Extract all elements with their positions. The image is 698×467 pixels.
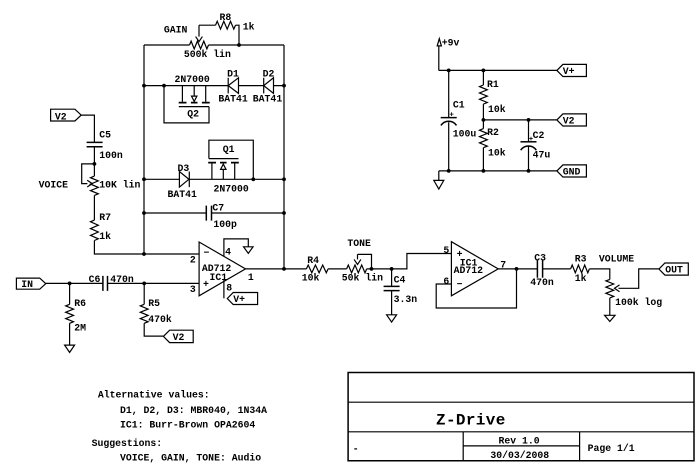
svg-text:R1: R1 — [487, 79, 499, 90]
node left rail / pin2 wire — [142, 252, 146, 256]
wire VOICE pot to R7 — [93, 195, 95, 220]
power tag V+ at pin 8 — [227, 293, 257, 305]
op-amp U1b IC1 AD712 stage 2 — [451, 242, 498, 296]
resistor R1 10k — [482, 70, 484, 85]
+9v supply arrow — [437, 39, 441, 46]
svg-text:BAT41: BAT41 — [253, 93, 283, 104]
diode D2 BAT41 — [263, 78, 265, 94]
svg-text:D1: D1 — [227, 69, 239, 80]
node R1 top — [482, 69, 486, 73]
power tag GND — [557, 165, 587, 177]
resistor R7 1k — [91, 220, 99, 240]
svg-text:−: − — [457, 279, 463, 290]
wire R7 to op-amp pin 2 — [94, 241, 199, 255]
svg-text:R5: R5 — [148, 298, 160, 309]
node R2 bottom — [482, 169, 486, 173]
svg-text:2: 2 — [190, 254, 196, 265]
svg-text:−: − — [204, 247, 210, 258]
node output/right rail — [282, 267, 286, 271]
svg-text:R4: R4 — [307, 255, 319, 266]
svg-text:C5: C5 — [99, 130, 111, 141]
svg-text:Q1: Q1 — [223, 144, 235, 155]
svg-text:D2: D2 — [263, 69, 275, 80]
svg-text:1k: 1k — [575, 273, 587, 284]
node C1 top — [447, 69, 451, 73]
svg-text:6: 6 — [443, 276, 449, 287]
ground of supply — [434, 180, 444, 189]
node C1 bottom — [447, 169, 451, 173]
port tag IN — [16, 278, 45, 289]
svg-text:100n: 100n — [99, 150, 123, 161]
ground under C4 — [387, 315, 397, 322]
svg-text:GAIN: GAIN — [164, 24, 188, 35]
svg-text:C3: C3 — [534, 253, 546, 264]
svg-text:R2: R2 — [487, 127, 499, 138]
svg-text:R7: R7 — [99, 212, 111, 223]
node R5 junction — [142, 282, 146, 286]
svg-text:R3: R3 — [575, 254, 587, 265]
svg-text:C6: C6 — [89, 274, 101, 285]
svg-text:V2: V2 — [173, 332, 185, 343]
wire clipping row 2 — [144, 178, 284, 180]
svg-text:R8: R8 — [220, 12, 232, 23]
pin 8 wire to V+ — [223, 280, 225, 298]
node C5/wiper junction — [93, 162, 97, 166]
pin 4 wire to ground — [224, 239, 248, 257]
capacitor C6 470n — [103, 276, 108, 291]
svg-text:470n: 470n — [110, 274, 134, 285]
svg-text:47u: 47u — [533, 149, 551, 160]
svg-text:30/03/2008: 30/03/2008 — [490, 450, 549, 461]
svg-text:2N7000: 2N7000 — [175, 74, 210, 85]
potentiometer VOICE 10K lin — [91, 176, 99, 195]
svg-text:Z-Drive: Z-Drive — [436, 411, 506, 429]
node right rail row2 — [282, 177, 286, 181]
svg-text:Suggestions:: Suggestions: — [92, 438, 163, 449]
svg-text:Alternative values:: Alternative values: — [98, 389, 210, 400]
svg-text:C1: C1 — [453, 100, 465, 111]
svg-text:3: 3 — [190, 284, 196, 295]
capacitor C5 100n — [87, 142, 103, 146]
svg-text:100u: 100u — [453, 128, 477, 139]
resistor R2 10k — [482, 120, 484, 129]
svg-text:5: 5 — [443, 245, 449, 256]
wire TONE to op-amp2 pin 5 — [367, 254, 452, 269]
svg-text:Page 1/1: Page 1/1 — [588, 443, 635, 454]
op-amp U1a IC1 AD712 stage 1 — [199, 242, 245, 296]
svg-text:D3: D3 — [178, 163, 190, 174]
svg-text:IC1: Burr-Brown OPA2604: IC1: Burr-Brown OPA2604 — [120, 419, 255, 430]
svg-text:10K lin: 10K lin — [99, 179, 140, 190]
wire op-amp2 output — [498, 268, 537, 270]
svg-text:V2: V2 — [563, 115, 575, 126]
node right rail row1 — [282, 84, 286, 88]
wire C7 row — [144, 212, 284, 214]
node right rail C7 row — [282, 211, 286, 215]
resistor R5 470k — [143, 283, 145, 304]
svg-text:VOICE, GAIN, TONE: Audio: VOICE, GAIN, TONE: Audio — [120, 452, 261, 463]
diode D1 BAT41 — [227, 78, 229, 94]
capacitor C4 3.3n — [391, 269, 393, 287]
wire C3 to R3 — [543, 268, 571, 270]
svg-text:10k: 10k — [302, 272, 320, 283]
port tag OUT — [659, 263, 688, 275]
svg-text:V2: V2 — [55, 111, 67, 122]
wire V2 tag to C5 — [81, 115, 94, 142]
node left rail row2 — [142, 177, 146, 181]
svg-text:1k: 1k — [99, 231, 111, 242]
node C2 top — [527, 118, 531, 122]
svg-text:R6: R6 — [74, 298, 86, 309]
svg-text:Q2: Q2 — [187, 108, 199, 119]
svg-text:3.3n: 3.3n — [394, 294, 418, 305]
wire VOLUME to ground — [609, 298, 611, 315]
capacitor C1 100u — [448, 70, 450, 117]
resistor R4 10k — [306, 265, 328, 273]
svg-text:4: 4 — [225, 247, 231, 258]
svg-text:VOICE: VOICE — [39, 179, 69, 190]
svg-text:OUT: OUT — [665, 264, 683, 275]
wire clipping row 1 — [144, 85, 284, 87]
svg-text:8: 8 — [226, 282, 232, 293]
svg-text:VOLUME: VOLUME — [599, 254, 634, 265]
svg-text:100k log: 100k log — [615, 297, 662, 308]
svg-text:IC1: IC1 — [210, 272, 228, 283]
svg-text:C2: C2 — [533, 130, 545, 141]
svg-text:+: + — [203, 279, 209, 290]
svg-text:1: 1 — [248, 272, 254, 283]
node left rail C7 row — [142, 211, 146, 215]
transistor Q2 2N7000 — [162, 84, 166, 88]
power tag V2 — [557, 114, 587, 126]
wire +9v to V+ row — [438, 46, 440, 71]
wire pin 6 feedback loop — [436, 269, 516, 308]
wire R3 to VOLUME — [589, 269, 609, 280]
wire input row — [46, 282, 199, 284]
svg-text:Rev 1.0: Rev 1.0 — [499, 436, 540, 447]
svg-text:C7: C7 — [212, 203, 224, 214]
wire C5 to VOICE pot — [93, 147, 95, 176]
diode D3 BAT41 — [179, 172, 189, 188]
svg-text:BAT41: BAT41 — [168, 189, 198, 200]
title block frame — [348, 373, 694, 461]
svg-text:10k: 10k — [488, 148, 506, 159]
svg-text:+: + — [449, 111, 454, 119]
power tag V+ — [557, 64, 587, 76]
svg-text:1k: 1k — [243, 21, 255, 32]
svg-text:-: - — [353, 443, 359, 454]
svg-text:100p: 100p — [213, 219, 237, 230]
transistor Q1 2N7000 — [209, 140, 253, 179]
wire GND row — [439, 170, 557, 172]
svg-text:V+: V+ — [233, 294, 245, 305]
node feedback/output junction — [515, 267, 519, 271]
svg-text:AD712: AD712 — [454, 265, 484, 276]
node C2 bottom — [527, 169, 531, 173]
svg-text:V+: V+ — [563, 66, 575, 77]
wire GND row to ground — [438, 171, 440, 181]
capacitor C7 100p — [206, 206, 211, 221]
wire top gain rail — [144, 44, 284, 46]
wire op-amp1 output row — [246, 268, 307, 270]
svg-text:10k: 10k — [488, 104, 506, 115]
node TONE wiper junction — [370, 267, 374, 271]
node R8/right rail junction — [237, 43, 241, 47]
svg-text:2N7000: 2N7000 — [214, 183, 249, 194]
svg-text:GND: GND — [563, 166, 581, 177]
capacitor C2 47u — [528, 120, 530, 142]
node R6 junction — [68, 282, 72, 286]
potentiometer VOLUME 100k log — [606, 279, 614, 298]
svg-text:+9v: +9v — [442, 37, 460, 48]
potentiometer TONE 50k lin — [347, 265, 367, 273]
node R1/R2 junction — [482, 118, 486, 122]
svg-text:470n: 470n — [530, 277, 554, 288]
svg-text:C4: C4 — [394, 275, 406, 286]
net tag V2 (to C5) — [51, 109, 82, 121]
svg-text:D1, D2, D3: MBR040, 1N34A: D1, D2, D3: MBR040, 1N34A — [120, 405, 267, 416]
potentiometer GAIN 500k lin — [190, 41, 209, 49]
resistor R8 1k — [199, 25, 239, 45]
wire R4 to TONE — [328, 268, 347, 270]
svg-text:TONE: TONE — [347, 238, 371, 249]
svg-text:IN: IN — [21, 279, 33, 290]
node left rail row1 — [142, 84, 146, 88]
svg-text:2M: 2M — [74, 322, 86, 333]
node C4 junction — [390, 267, 394, 271]
ground at pin 4 — [244, 247, 254, 254]
wire left rail — [143, 45, 145, 254]
svg-text:470k: 470k — [148, 314, 172, 325]
net tag V2 (from R5) — [163, 330, 193, 342]
wire V+ row — [439, 69, 557, 71]
resistor R3 1k — [571, 265, 590, 273]
wire right rail — [283, 45, 285, 269]
capacitor C3 470n — [537, 260, 542, 278]
ground under R6 — [65, 345, 75, 352]
ground under VOLUME — [605, 315, 616, 321]
svg-text:50k lin: 50k lin — [342, 272, 383, 283]
svg-text:BAT41: BAT41 — [218, 93, 248, 104]
resistor R6 2M — [69, 283, 71, 304]
wire V2 row — [483, 119, 557, 121]
svg-text:500k lin: 500k lin — [184, 49, 231, 60]
